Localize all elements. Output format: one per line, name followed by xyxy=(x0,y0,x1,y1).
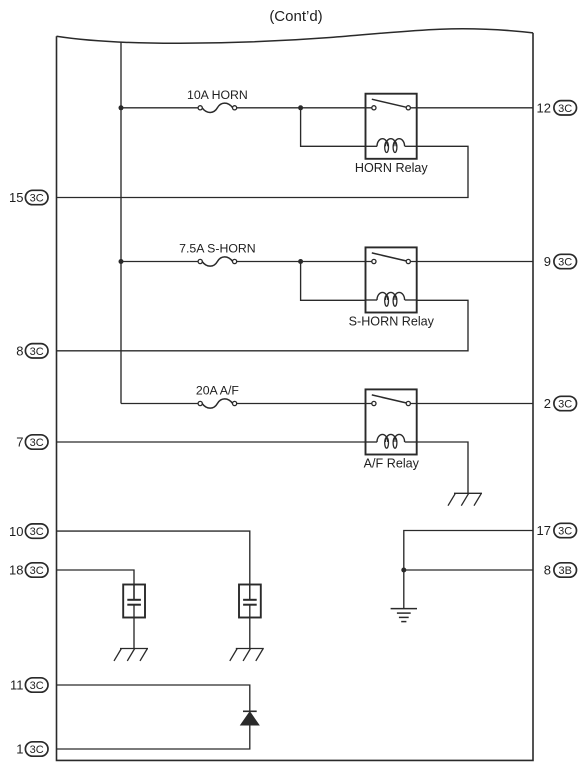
svg-text:10A HORN: 10A HORN xyxy=(187,88,248,102)
wire: bus corner to fuse F3 xyxy=(121,403,198,405)
relay K2 (S-HORN Relay) xyxy=(366,247,417,312)
wire: pin 17 down to ground xyxy=(404,531,533,609)
svg-text:3C: 3C xyxy=(30,565,44,577)
svg-text:3C: 3C xyxy=(30,193,44,205)
connector pin 12 (3C) right y=107.8 xyxy=(537,101,577,116)
wire: K3 switch out to right border (pin 2) xyxy=(410,403,533,405)
connector pin 18 (3C) left y=570 xyxy=(9,563,48,578)
svg-text:3C: 3C xyxy=(30,744,44,756)
svg-text:3B: 3B xyxy=(558,565,571,577)
relay K3 (A/F Relay) xyxy=(366,389,417,454)
power bus wire (vertical from break line) xyxy=(120,42,122,403)
wire: K2 coil out, down, left to pin 8 xyxy=(57,300,469,351)
svg-text:12: 12 xyxy=(537,101,551,116)
svg-text:20A A/F: 20A A/F xyxy=(196,384,240,398)
wire: pin 18 to capacitor C1 xyxy=(57,570,135,600)
wire: junction down and right to K2 coil xyxy=(301,262,366,301)
svg-text:S-HORN Relay: S-HORN Relay xyxy=(349,315,435,329)
svg-text:7.5A S-HORN: 7.5A S-HORN xyxy=(179,242,256,256)
wire: fuse F3 to relay K3 switch xyxy=(237,403,372,405)
wire: pin 7 to K3 coil xyxy=(57,441,366,443)
connector pin 15 (3C) left y=197.5 xyxy=(9,190,48,205)
fuse F2 (7.5A S-HORN) xyxy=(179,242,256,266)
wire: bus to fuse F2 xyxy=(121,261,198,263)
wire: pin 10 to capacitor C2 xyxy=(57,531,250,600)
wire: fuse F1 to relay K1 switch xyxy=(237,107,372,109)
wire: K1 switch out to right border (pin 12) xyxy=(410,107,533,109)
wire: K2 switch out to right border (pin 9) xyxy=(410,261,533,263)
svg-text:10: 10 xyxy=(9,524,23,539)
connector pin 8 (3C) left y=350.8 xyxy=(16,344,48,359)
connector pin 10 (3C) left y=531.1 xyxy=(9,524,48,539)
node: junction to K1 coil xyxy=(298,105,303,110)
svg-text:A/F Relay: A/F Relay xyxy=(364,457,420,471)
svg-text:11: 11 xyxy=(10,678,24,693)
capacitor C1 (boxed) xyxy=(123,585,145,649)
svg-text:3C: 3C xyxy=(558,399,572,411)
fuse F1 (10A HORN) xyxy=(187,88,248,112)
node: junction pin8/ground xyxy=(401,568,406,573)
relay K1 (HORN Relay) xyxy=(366,94,417,159)
connector pin 9 (3C) right y=261.5 xyxy=(544,254,577,269)
svg-text:9: 9 xyxy=(544,254,551,269)
capacitor C2 (boxed) xyxy=(239,585,261,649)
connector pin 1 (3C) left y=749 xyxy=(16,742,48,757)
svg-text:3C: 3C xyxy=(558,526,572,538)
node: bus junction section 2 xyxy=(119,259,124,264)
ground under C2 xyxy=(230,649,264,661)
svg-text:7: 7 xyxy=(16,435,23,450)
diode D1 xyxy=(241,711,259,725)
ground under C1 xyxy=(114,649,148,661)
svg-text:2: 2 xyxy=(544,396,551,411)
svg-text:17: 17 xyxy=(537,523,551,538)
svg-text:8: 8 xyxy=(16,344,23,359)
svg-text:18: 18 xyxy=(9,563,23,578)
wire: bus to fuse F1 xyxy=(121,107,198,109)
svg-text:3C: 3C xyxy=(558,257,572,269)
svg-text:3C: 3C xyxy=(558,103,572,115)
wire: pin 1 to diode D1 anode xyxy=(57,725,250,749)
svg-text:3C: 3C xyxy=(30,526,44,538)
svg-text:8: 8 xyxy=(544,563,551,578)
wire: junction down and right to K1 coil xyxy=(301,108,366,147)
svg-text:3C: 3C xyxy=(30,437,44,449)
frame wavy top edge (break line) xyxy=(57,29,534,43)
connector pin 2 (3C) right y=403.5 xyxy=(544,396,577,411)
node: bus junction section 1 xyxy=(119,105,124,110)
svg-text:1: 1 xyxy=(16,742,23,757)
wire: fuse F2 to relay K2 switch xyxy=(237,261,372,263)
connector pin 11 (3C) left y=685 xyxy=(10,678,48,693)
ground (K3 coil) xyxy=(448,493,482,505)
fuse F3 (20A A/F) xyxy=(196,384,240,408)
ground (earth, chassis) xyxy=(391,609,417,622)
wire: pin 8 (3B) xyxy=(404,569,533,571)
connector pin 7 (3C) left y=442.0 xyxy=(16,435,48,450)
connector pin 17 (3C) right y=530.5 xyxy=(537,523,577,538)
frame left/bottom/right border xyxy=(57,33,534,761)
svg-text:15: 15 xyxy=(9,190,23,205)
svg-text:(Cont’d): (Cont’d) xyxy=(269,8,322,25)
svg-text:3C: 3C xyxy=(30,346,44,358)
wire: K3 coil out, down to ground xyxy=(417,442,468,493)
wire: K1 coil out, down, left to pin 15 xyxy=(57,146,469,197)
wire: pin 11 to diode D1 cathode xyxy=(57,685,250,711)
svg-text:HORN Relay: HORN Relay xyxy=(355,161,428,175)
connector pin 8 (3B) right y=570 xyxy=(544,563,577,578)
svg-text:3C: 3C xyxy=(30,680,44,692)
node: junction to K2 coil xyxy=(298,259,303,264)
